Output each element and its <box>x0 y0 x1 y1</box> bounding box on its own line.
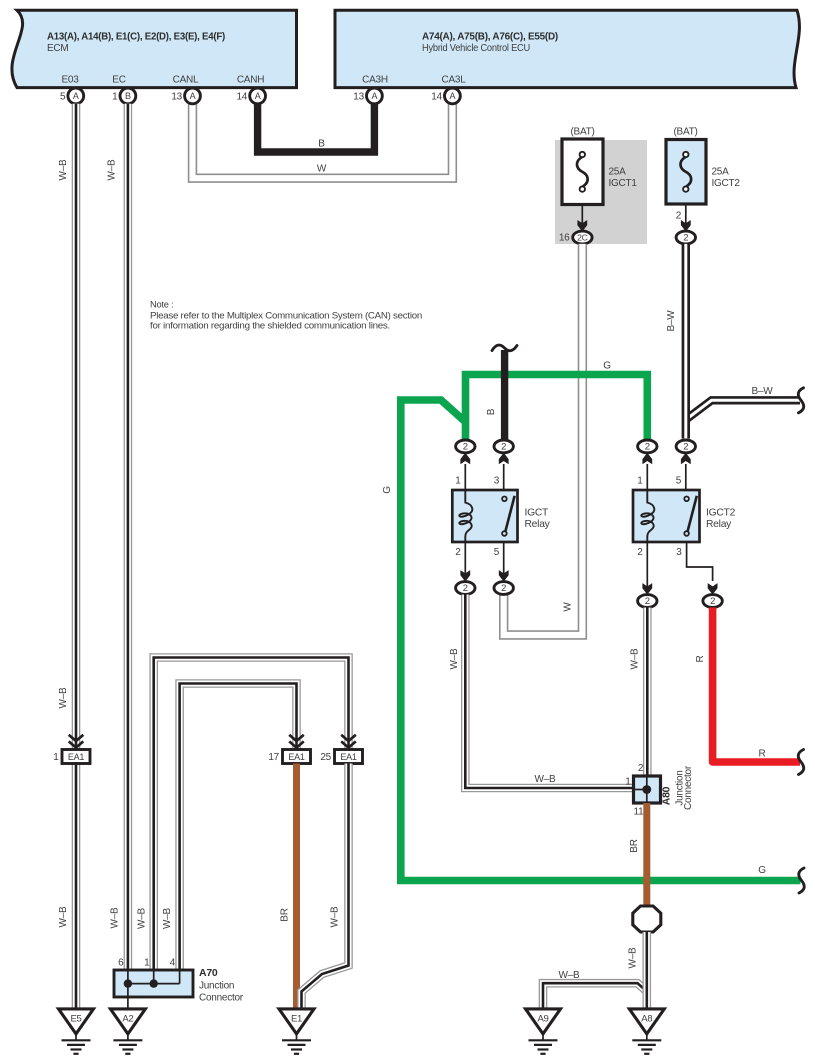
wire W-B A70 pin 4 to EA1 17 <box>180 684 297 971</box>
arrow into EA1 25 <box>341 735 356 748</box>
connector 2 below IGCT2 relay pin 2 <box>638 595 657 608</box>
wire B-W fuse IGCT2 to relay pin 5 <box>682 244 690 439</box>
connector 2 below IGCT2 relay pin 3 <box>703 595 722 608</box>
junction connector EA1 17 <box>268 750 310 764</box>
svg-text:EA1: EA1 <box>340 752 357 762</box>
svg-text:W–B: W–B <box>58 159 69 181</box>
svg-text:4: 4 <box>170 958 176 969</box>
svg-text:3: 3 <box>676 547 682 558</box>
svg-text:E5: E5 <box>70 1013 81 1024</box>
svg-text:G: G <box>758 865 766 876</box>
svg-text:EA1: EA1 <box>288 752 305 762</box>
ground E1 <box>279 1009 314 1054</box>
svg-text:17: 17 <box>268 752 279 763</box>
wire W-B branch to ground A9 <box>543 983 647 1009</box>
svg-text:Please refer to the Multiplex: Please refer to the Multiplex Communicat… <box>150 311 422 321</box>
svg-text:CANH: CANH <box>237 75 264 86</box>
svg-text:13: 13 <box>353 91 364 102</box>
svg-text:A13(A), A14(B), E1(C), E2(D),: A13(A), A14(B), E1(C), E2(D), E3(E), E4(… <box>47 32 225 43</box>
svg-text:2: 2 <box>463 442 468 453</box>
svg-text:IGCT2: IGCT2 <box>706 508 736 519</box>
HV ECU pin 13 CA3H <box>353 88 382 104</box>
svg-text:5: 5 <box>494 547 500 558</box>
svg-text:W–B: W–B <box>107 159 118 181</box>
wire W-B EA1 25 to ground E1 <box>302 764 349 1009</box>
svg-text:EA1: EA1 <box>68 752 85 762</box>
junction connector A80 <box>625 763 694 818</box>
svg-text:1: 1 <box>625 777 631 788</box>
svg-text:14: 14 <box>431 91 442 102</box>
svg-text:W–B: W–B <box>628 947 639 969</box>
svg-text:2: 2 <box>683 233 688 244</box>
noise filter octagon <box>633 906 661 932</box>
svg-text:2: 2 <box>645 596 650 607</box>
note text <box>150 300 422 331</box>
wire IGCT2 fuse pin 2 <box>685 204 687 226</box>
fuse block shading <box>555 140 647 244</box>
svg-text:W–B: W–B <box>110 907 121 929</box>
ECM pin 14 CANH <box>236 88 265 104</box>
arrow into EA1 1 <box>69 735 84 748</box>
wire W-B octagon to ground A8 <box>642 932 651 1009</box>
svg-text:for information regarding the: for information regarding the shielded c… <box>150 321 390 331</box>
torn end B <box>492 345 517 351</box>
svg-text:6: 6 <box>118 958 124 969</box>
svg-text:25A: 25A <box>712 167 730 178</box>
arrow into EA1 17 <box>289 735 304 748</box>
svg-text:A80: A80 <box>661 786 673 805</box>
ECM pin 13 CANL <box>171 88 200 104</box>
wire BR EA1 17 to ground E1 <box>293 764 300 1009</box>
svg-text:W–B: W–B <box>162 907 173 929</box>
svg-text:W–B: W–B <box>449 648 460 670</box>
svg-text:2: 2 <box>501 442 506 453</box>
wire W-B A70 pin 1 to EA1 25 <box>154 658 349 971</box>
svg-text:3: 3 <box>494 476 500 487</box>
junction connector EA1 25 <box>320 750 362 764</box>
svg-text:Relay: Relay <box>706 519 732 530</box>
torn end R <box>798 750 803 775</box>
wire W-B IGCT2 relay pin 2 to A80 pin 2 <box>643 608 652 777</box>
connector 2 below IGCT2 fuse <box>676 231 695 244</box>
svg-text:A8: A8 <box>641 1013 652 1024</box>
ground A8 <box>629 1009 664 1054</box>
svg-text:2: 2 <box>637 547 643 558</box>
svg-text:Connector: Connector <box>683 765 694 810</box>
svg-text:A70: A70 <box>199 967 218 979</box>
svg-text:A2: A2 <box>122 1013 133 1024</box>
svg-text:A: A <box>372 91 378 101</box>
svg-text:2C: 2C <box>577 233 588 243</box>
connector 2 above IGCT2 relay pin 1 <box>638 440 657 464</box>
relay IGCT <box>452 490 550 542</box>
svg-text:W–B: W–B <box>559 970 581 981</box>
svg-text:CA3H: CA3H <box>362 75 388 86</box>
wire A70 to ground A2 <box>127 997 129 1009</box>
svg-text:5: 5 <box>60 91 66 102</box>
svg-text:B–W: B–W <box>752 386 774 397</box>
svg-text:2: 2 <box>638 763 644 774</box>
svg-text:2: 2 <box>645 442 650 453</box>
wire IGCT relay pin 3 <box>503 464 505 498</box>
wire BR A80 pin 11 to noise filter <box>643 803 650 907</box>
svg-text:Junction: Junction <box>199 980 234 991</box>
svg-text:Hybrid Vehicle Control ECU: Hybrid Vehicle Control ECU <box>422 43 530 54</box>
svg-text:E03: E03 <box>61 75 79 86</box>
svg-text:W: W <box>563 602 574 612</box>
ECM connector box <box>12 10 297 87</box>
ECM pin 5 E03 <box>60 88 84 104</box>
wire B torn end to IGCT relay pin 3 <box>501 350 508 440</box>
svg-text:W–B: W–B <box>535 774 557 785</box>
fuse 25A IGCT1 <box>562 127 637 205</box>
wire IGCT relay pin 5 <box>503 542 505 582</box>
wire B-W branch to torn end <box>686 400 800 419</box>
wire G main vertical and bottom run <box>401 400 801 881</box>
svg-text:2: 2 <box>683 442 688 453</box>
svg-text:2: 2 <box>455 547 461 558</box>
svg-text:W–B: W–B <box>58 906 69 928</box>
svg-text:B: B <box>486 408 497 415</box>
connector 16 2C <box>559 231 592 244</box>
svg-text:B: B <box>318 139 325 150</box>
junction connector A70 <box>114 958 244 1004</box>
wire IGCT2 relay pin 2 <box>646 542 648 595</box>
svg-text:(BAT): (BAT) <box>570 127 594 138</box>
wire B CANH to CA3H <box>258 100 375 152</box>
svg-text:W–B: W–B <box>136 907 147 929</box>
svg-text:1: 1 <box>455 476 461 487</box>
junction connector EA1 1 <box>53 750 90 764</box>
wire W-B from ECM EC to A70 pin 6 <box>124 104 133 970</box>
ground A2 <box>110 1009 145 1054</box>
fuse 25A IGCT2 <box>666 127 740 205</box>
ground E5 <box>59 1009 94 1054</box>
svg-text:A: A <box>190 91 196 101</box>
wire IGCT2 relay pin 5 <box>685 464 687 498</box>
svg-text:W–B: W–B <box>58 687 69 709</box>
wire W-B IGCT relay pin 2 to A80 pin 1 <box>465 595 633 789</box>
torn end B-W <box>798 388 803 413</box>
HV ECU pin 14 CA3L <box>431 88 460 104</box>
svg-text:Note :: Note : <box>150 300 173 310</box>
wire IGCT relay pin 1 <box>464 464 466 503</box>
svg-text:B–W: B–W <box>666 310 677 332</box>
svg-text:W: W <box>317 164 327 175</box>
svg-text:Connector: Connector <box>199 993 244 1004</box>
svg-text:(BAT): (BAT) <box>673 127 697 138</box>
wire W-B EA1 to ground E5 <box>72 764 81 1009</box>
svg-text:A: A <box>255 91 261 101</box>
svg-text:W–B: W–B <box>330 906 341 928</box>
svg-text:A9: A9 <box>537 1013 548 1024</box>
ECM pin 1 EC <box>112 88 136 104</box>
wire IGCT1 fuse to 2C <box>581 205 583 227</box>
wire W fuse IGCT1 to relay pin 5 <box>504 244 583 635</box>
svg-text:G: G <box>382 486 393 494</box>
svg-text:R: R <box>759 749 766 760</box>
wire R relay to torn end <box>713 608 800 763</box>
svg-text:CANL: CANL <box>173 75 199 86</box>
svg-text:G: G <box>603 361 611 372</box>
svg-text:25A: 25A <box>609 167 627 178</box>
wire W shield CANL to CA3L <box>193 98 453 178</box>
svg-text:1: 1 <box>144 958 150 969</box>
wire IGCT2 relay pin 3 <box>687 542 713 581</box>
svg-text:2: 2 <box>676 211 682 222</box>
svg-text:13: 13 <box>171 91 182 102</box>
connector 2 below IGCT relay pin 2 <box>456 582 475 595</box>
svg-text:5: 5 <box>676 476 682 487</box>
svg-text:IGCT2: IGCT2 <box>712 178 741 189</box>
svg-text:B: B <box>125 91 131 101</box>
svg-text:W–B: W–B <box>630 648 641 670</box>
svg-text:CA3L: CA3L <box>441 75 466 86</box>
connector 2 below IGCT relay pin 5 <box>494 582 513 595</box>
wire IGCT2 relay pin 1 <box>646 464 648 503</box>
svg-text:A: A <box>73 91 79 101</box>
svg-text:14: 14 <box>236 91 247 102</box>
svg-text:EC: EC <box>112 75 125 86</box>
ground A9 <box>526 1009 561 1054</box>
svg-text:2: 2 <box>463 583 468 594</box>
svg-text:IGCT1: IGCT1 <box>609 178 638 189</box>
svg-text:ECM: ECM <box>47 43 68 54</box>
svg-text:A: A <box>450 91 456 101</box>
wire W-B from ECM E03 to EA1 <box>72 104 81 750</box>
svg-text:1: 1 <box>53 752 59 763</box>
svg-text:E1: E1 <box>291 1013 302 1024</box>
svg-text:2: 2 <box>710 596 715 607</box>
relay IGCT2 <box>633 490 736 542</box>
svg-text:11: 11 <box>634 807 645 818</box>
svg-text:1: 1 <box>112 91 118 102</box>
Hybrid Vehicle Control ECU box <box>335 10 799 87</box>
connector 2 above IGCT relay pin 3 <box>494 440 513 464</box>
svg-text:25: 25 <box>320 752 331 763</box>
connector 2 above IGCT relay pin 1 <box>456 440 475 464</box>
wire IGCT relay pin 2 <box>464 542 466 582</box>
torn end G <box>799 868 804 893</box>
svg-text:16: 16 <box>559 233 570 244</box>
svg-text:Relay: Relay <box>525 519 551 530</box>
svg-text:A74(A), A75(B), A76(C), E55(D): A74(A), A75(B), A76(C), E55(D) <box>422 32 558 43</box>
svg-text:IGCT: IGCT <box>525 508 550 519</box>
svg-text:2: 2 <box>501 583 506 594</box>
svg-text:BR: BR <box>280 908 291 921</box>
wire G upper run to relays <box>466 375 648 441</box>
connector 2 above IGCT2 relay pin 5 <box>676 440 695 464</box>
svg-text:BR: BR <box>629 839 640 852</box>
svg-text:1: 1 <box>637 476 643 487</box>
svg-text:R: R <box>695 655 706 662</box>
